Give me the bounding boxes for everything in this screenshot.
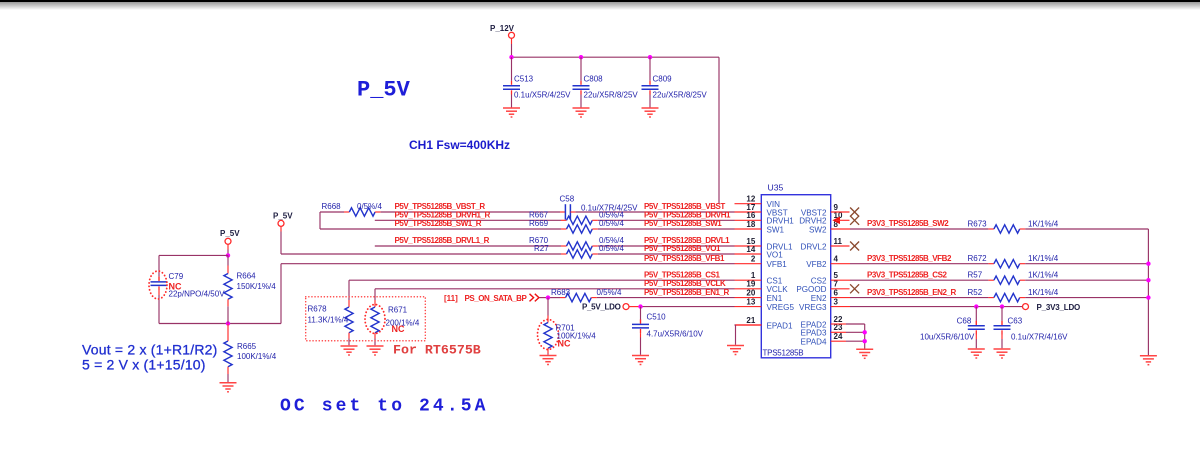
svg-text:VREG3: VREG3 [799, 303, 827, 312]
svg-text:OC set to 24.5A: OC set to 24.5A [280, 397, 489, 417]
svg-text:P5V_TPS51285B_SW1_R: P5V_TPS51285B_SW1_R [395, 219, 482, 228]
svg-text:R668: R668 [322, 202, 342, 211]
svg-text:R57: R57 [968, 271, 983, 280]
svg-text:VREG5: VREG5 [767, 303, 795, 312]
svg-text:TPS51285B: TPS51285B [763, 348, 804, 357]
svg-text:DRVH2: DRVH2 [799, 217, 827, 226]
svg-text:VO1: VO1 [767, 250, 784, 259]
svg-text:22u/X5R/8/25V: 22u/X5R/8/25V [584, 91, 639, 100]
svg-text:3: 3 [834, 297, 839, 306]
svg-text:14: 14 [746, 245, 755, 254]
svg-text:SW2: SW2 [809, 225, 827, 234]
svg-text:P5V_TPS51285B_DRVH1: P5V_TPS51285B_DRVH1 [644, 211, 731, 220]
svg-text:22u/X5R/8/25V: 22u/X5R/8/25V [653, 91, 708, 100]
svg-text:10u/X5R/6/10V: 10u/X5R/6/10V [920, 333, 975, 342]
svg-text:P3V3_TPS51285B_CS2: P3V3_TPS51285B_CS2 [867, 270, 948, 279]
svg-text:P3V3_TPS51285B_VFB2: P3V3_TPS51285B_VFB2 [867, 254, 952, 263]
svg-text:R673: R673 [968, 220, 988, 229]
svg-text:0.1u/X7R/4/16V: 0.1u/X7R/4/16V [1011, 333, 1068, 342]
svg-text:C79: C79 [169, 272, 184, 281]
svg-text:4: 4 [834, 255, 839, 264]
svg-text:18: 18 [746, 220, 755, 229]
svg-text:P3V3_TPS51285B_SW2: P3V3_TPS51285B_SW2 [867, 219, 949, 228]
svg-text:VFB2: VFB2 [806, 260, 827, 269]
svg-text:11: 11 [834, 237, 843, 246]
svg-text:Vout = 2 x (1+R1/R2): Vout = 2 x (1+R1/R2) [82, 341, 218, 357]
svg-text:EPAD4: EPAD4 [801, 338, 827, 347]
svg-text:C63: C63 [1008, 317, 1023, 326]
svg-text:DRVL2: DRVL2 [801, 242, 827, 251]
svg-text:1K/1%/4: 1K/1%/4 [1028, 254, 1059, 263]
svg-text:P_5V: P_5V [357, 78, 411, 103]
svg-text:C510: C510 [647, 313, 667, 322]
svg-text:VFB1: VFB1 [767, 260, 788, 269]
svg-text:P5V_TPS51285B_SW1: P5V_TPS51285B_SW1 [644, 219, 722, 228]
svg-text:EN1: EN1 [767, 294, 783, 303]
svg-text:6: 6 [834, 288, 839, 297]
svg-text:7: 7 [834, 280, 839, 289]
svg-text:0/5%/4: 0/5%/4 [599, 211, 624, 220]
svg-text:100K/1%/4: 100K/1%/4 [237, 352, 277, 361]
svg-text:P_12V: P_12V [490, 24, 515, 33]
svg-text:13: 13 [746, 297, 755, 306]
svg-text:VCLK: VCLK [767, 285, 789, 294]
svg-text:P5V_TPS51285B_VFB1: P5V_TPS51285B_VFB1 [644, 254, 725, 263]
svg-text:U35: U35 [768, 183, 784, 193]
svg-text:150K/1%/4: 150K/1%/4 [237, 282, 277, 291]
svg-text:0/5%/4: 0/5%/4 [599, 244, 624, 253]
svg-text:2: 2 [751, 255, 756, 264]
svg-text:0/5%/4: 0/5%/4 [599, 219, 624, 228]
svg-text:C58: C58 [560, 195, 575, 204]
svg-text:1K/1%/4: 1K/1%/4 [1028, 271, 1059, 280]
svg-text:PGOOD: PGOOD [796, 285, 826, 294]
svg-text:P5V_TPS51285B_VO1: P5V_TPS51285B_VO1 [644, 244, 721, 253]
svg-text:P5V_TPS51285B_VCLK: P5V_TPS51285B_VCLK [644, 279, 726, 288]
svg-text:P5V_TPS51285B_DRVH1_R: P5V_TPS51285B_DRVH1_R [395, 211, 491, 220]
svg-text:R665: R665 [237, 342, 257, 351]
svg-text:P_5V: P_5V [220, 229, 240, 238]
svg-text:NC: NC [392, 324, 405, 334]
svg-text:C68: C68 [957, 317, 972, 326]
svg-text:4.7u/X5R/6/10V: 4.7u/X5R/6/10V [647, 330, 704, 339]
svg-text:R678: R678 [308, 305, 328, 314]
svg-text:16: 16 [746, 211, 755, 220]
svg-text:1K/1%/4: 1K/1%/4 [1028, 220, 1059, 229]
svg-text:20: 20 [746, 288, 755, 297]
svg-text:P_5V: P_5V [273, 212, 293, 221]
svg-text:DRVH1: DRVH1 [767, 217, 795, 226]
svg-text:P_5V_LDO: P_5V_LDO [582, 303, 621, 312]
svg-text:EN2: EN2 [811, 294, 827, 303]
svg-text:R667: R667 [529, 211, 549, 220]
svg-text:C513: C513 [514, 75, 534, 84]
svg-text:R672: R672 [968, 254, 988, 263]
svg-text:P_3V3_LDO: P_3V3_LDO [1037, 303, 1081, 312]
svg-text:[11]: [11] [444, 294, 458, 303]
svg-text:1K/1%/4: 1K/1%/4 [1028, 288, 1059, 297]
svg-text:0/5%/4: 0/5%/4 [597, 288, 622, 297]
svg-text:24: 24 [834, 332, 843, 341]
svg-text:PS_ON_SATA_BP: PS_ON_SATA_BP [465, 294, 528, 303]
svg-text:R664: R664 [237, 272, 257, 281]
svg-text:R669: R669 [529, 219, 549, 228]
svg-text:5 = 2 V x (1+15/10): 5 = 2 V x (1+15/10) [82, 356, 206, 372]
svg-text:CH1 Fsw=400KHz: CH1 Fsw=400KHz [409, 138, 510, 152]
svg-text:R27: R27 [534, 244, 549, 253]
svg-text:0/5%/4: 0/5%/4 [357, 202, 382, 211]
svg-text:EPAD1: EPAD1 [767, 321, 793, 330]
svg-text:21: 21 [746, 316, 755, 325]
svg-text:C808: C808 [584, 75, 604, 84]
svg-text:R683: R683 [551, 288, 571, 297]
svg-text:P5V_TPS51285B_EN1_R: P5V_TPS51285B_EN1_R [644, 288, 730, 297]
svg-text:For RT6575B: For RT6575B [393, 343, 481, 358]
svg-text:R52: R52 [968, 288, 983, 297]
svg-text:SW1: SW1 [767, 225, 785, 234]
svg-text:19: 19 [746, 280, 755, 289]
svg-text:R671: R671 [388, 306, 408, 315]
svg-text:P5V_TPS51285B_DRVL1_R: P5V_TPS51285B_DRVL1_R [395, 236, 490, 245]
svg-text:P3V3_TPS51285B_EN2_R: P3V3_TPS51285B_EN2_R [867, 288, 957, 297]
svg-text:11.3K/1%/4: 11.3K/1%/4 [308, 316, 349, 325]
svg-text:0.1u/X5R/4/25V: 0.1u/X5R/4/25V [514, 91, 571, 100]
svg-text:EPAD3: EPAD3 [801, 329, 827, 338]
svg-text:22p/NPO/4/50V: 22p/NPO/4/50V [169, 290, 226, 299]
svg-text:NC: NC [558, 339, 571, 349]
svg-text:C809: C809 [653, 75, 673, 84]
